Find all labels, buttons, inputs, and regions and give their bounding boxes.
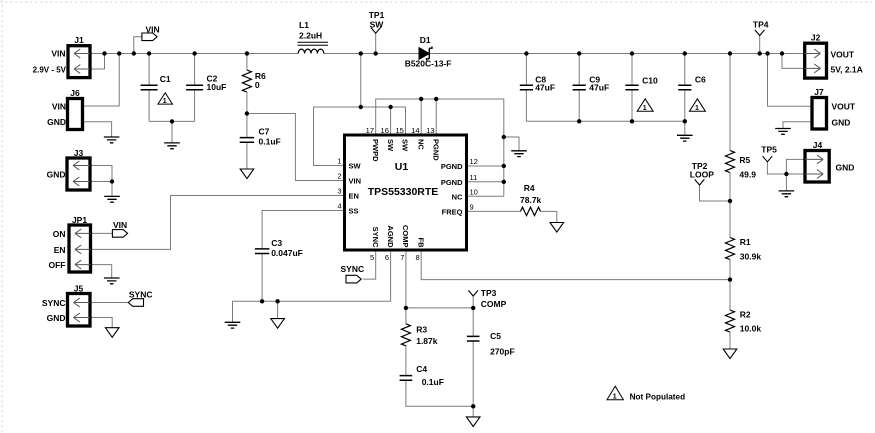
wire R1 to R2 bbox=[729, 260, 731, 311]
net flag VIN (top) bbox=[142, 33, 157, 41]
junction TP2/R5 bbox=[728, 199, 732, 203]
resistor R3 bbox=[401, 324, 410, 346]
svg-text:SW: SW bbox=[386, 139, 395, 152]
connector J3 bbox=[67, 158, 90, 190]
wire R3 to C4 bbox=[405, 346, 407, 376]
wire U1 pin16 stub bbox=[390, 107, 392, 135]
svg-text:VOUT: VOUT bbox=[831, 49, 855, 59]
ground (J3) bbox=[104, 196, 120, 202]
svg-text:47uF: 47uF bbox=[535, 82, 555, 92]
junction AGND bus bbox=[260, 299, 264, 303]
wire U1 pin12 bbox=[467, 165, 504, 167]
ground (AGND triangle) bbox=[271, 319, 285, 329]
junction R6/C7 bbox=[245, 111, 249, 115]
test point TP3 bbox=[468, 290, 478, 296]
ground (J6) bbox=[104, 137, 120, 143]
svg-text:EN: EN bbox=[54, 245, 66, 255]
wire J3 pin2 to ground bbox=[90, 182, 112, 197]
wire J3 pin1 bbox=[90, 166, 112, 182]
wire JP1 pin1 to VIN flag bbox=[91, 232, 113, 234]
svg-text:J3: J3 bbox=[74, 148, 84, 158]
wire VOUT rail (D1 to J2) bbox=[430, 53, 805, 55]
resistor R6 bbox=[242, 70, 251, 92]
capacitor C4 bbox=[400, 376, 413, 381]
svg-text:2: 2 bbox=[337, 172, 341, 181]
wire SW horizontal bbox=[314, 106, 406, 108]
svg-text:1: 1 bbox=[613, 394, 617, 401]
wire R6/C7 junction to U1 VIN pin2 bbox=[247, 114, 345, 181]
svg-text:Not Populated: Not Populated bbox=[630, 392, 686, 401]
junction J4 pins bbox=[784, 172, 788, 176]
svg-text:AGND: AGND bbox=[386, 225, 395, 248]
svg-text:SW: SW bbox=[370, 19, 385, 29]
junction COMP node bbox=[404, 306, 408, 310]
junction J3 pins bbox=[110, 179, 114, 183]
wire U1 pin9 FREQ to R4 bbox=[467, 210, 521, 212]
connector J7 bbox=[812, 98, 827, 130]
svg-text:VIN: VIN bbox=[146, 25, 160, 35]
svg-text:270pF: 270pF bbox=[490, 346, 515, 356]
wire J5 pin2 to ground bbox=[90, 318, 112, 328]
svg-text:30.9k: 30.9k bbox=[740, 251, 762, 261]
resistor R1 bbox=[726, 238, 735, 260]
connector J5 bbox=[68, 294, 91, 327]
svg-text:8: 8 bbox=[416, 253, 420, 262]
inductor L1 bbox=[298, 49, 324, 53]
svg-text:EN: EN bbox=[349, 192, 359, 201]
test point TP1 bbox=[371, 28, 381, 34]
wire output bus ground stem bbox=[684, 121, 686, 135]
wire TP3 stem bbox=[472, 296, 474, 308]
wire U1 pin8 FB net bbox=[421, 250, 730, 280]
svg-text:TP3: TP3 bbox=[481, 288, 497, 298]
svg-text:R2: R2 bbox=[740, 310, 751, 320]
capacitor C6 bbox=[678, 85, 691, 90]
wire R6 leads bbox=[246, 54, 248, 114]
connector J1 bbox=[68, 46, 90, 78]
svg-text:3: 3 bbox=[337, 187, 341, 196]
wire C4 bottom to C5 bottom bbox=[406, 380, 473, 406]
ground (C1 C2) bbox=[164, 143, 180, 149]
svg-text:SYNC: SYNC bbox=[341, 264, 365, 274]
ground (C7) bbox=[240, 169, 254, 179]
wire U1 pin15 stub bbox=[405, 107, 407, 135]
svg-text:J7: J7 bbox=[814, 87, 824, 97]
capacitor C10 bbox=[625, 85, 638, 90]
svg-text:NC: NC bbox=[416, 139, 425, 150]
svg-text:C7: C7 bbox=[259, 126, 270, 136]
svg-text:FB: FB bbox=[416, 238, 425, 249]
svg-text:1.87k: 1.87k bbox=[416, 336, 438, 346]
wire C8 leads bbox=[525, 54, 527, 122]
wire C1C2 ground stem bbox=[171, 121, 173, 142]
wire J2 pin2 bbox=[782, 54, 805, 69]
svg-text:GND: GND bbox=[47, 117, 66, 127]
wire TP5 stem bbox=[767, 162, 786, 174]
wire R5 to R1 bbox=[729, 173, 731, 238]
wire VIN rail bbox=[90, 53, 298, 55]
test point TP2 bbox=[695, 179, 705, 185]
svg-text:PGND: PGND bbox=[441, 162, 463, 171]
junction C1C2 bus bbox=[170, 119, 174, 123]
capacitor C9 bbox=[573, 85, 586, 90]
svg-text:J6: J6 bbox=[70, 88, 80, 98]
wire R5 top lead bbox=[729, 54, 731, 151]
ground (J5) bbox=[105, 328, 119, 338]
svg-text:B520C-13-F: B520C-13-F bbox=[405, 59, 452, 69]
svg-text:VOUT: VOUT bbox=[832, 102, 856, 112]
wire PGND to ground bbox=[504, 137, 519, 151]
svg-text:PWPD: PWPD bbox=[371, 139, 380, 162]
svg-text:SW: SW bbox=[349, 162, 362, 171]
svg-text:0.1uF: 0.1uF bbox=[259, 136, 281, 146]
svg-text:TPS55330RTE: TPS55330RTE bbox=[368, 186, 439, 198]
wire VIN flag leader bbox=[134, 37, 142, 54]
wire U1 pin7 COMP down bbox=[405, 250, 407, 308]
wire C1 leads bbox=[148, 54, 150, 122]
wire C10 leads bbox=[631, 54, 633, 122]
net flag SYNC (J5) bbox=[128, 299, 143, 307]
wire JP1 pin2 EN to U1 pin3 bbox=[91, 196, 345, 250]
svg-text:R3: R3 bbox=[416, 324, 427, 334]
note Not Populated bbox=[607, 386, 623, 400]
ground (R2) bbox=[723, 349, 737, 359]
svg-text:C5: C5 bbox=[490, 331, 501, 341]
svg-text:GND: GND bbox=[836, 163, 855, 173]
svg-text:10.0k: 10.0k bbox=[740, 324, 762, 334]
svg-text:10uF: 10uF bbox=[207, 82, 227, 92]
svg-text:J1: J1 bbox=[74, 35, 84, 45]
svg-text:C6: C6 bbox=[695, 74, 706, 84]
capacitor C3 bbox=[255, 249, 269, 254]
junction PWPD line bbox=[419, 97, 423, 101]
wire J5 pin1 to SYNC flag bbox=[90, 302, 128, 304]
wire COMP net ground stem bbox=[472, 406, 474, 417]
wire J7 pin1 bbox=[768, 54, 813, 107]
svg-text:10: 10 bbox=[470, 188, 478, 197]
svg-text:9: 9 bbox=[470, 203, 474, 212]
svg-text:ON: ON bbox=[53, 229, 66, 239]
svg-text:SYNC: SYNC bbox=[42, 298, 66, 308]
svg-text:OFF: OFF bbox=[49, 260, 66, 270]
wire U1 pin10 bbox=[467, 195, 504, 197]
svg-text:C10: C10 bbox=[642, 75, 658, 85]
ground (COMP net) bbox=[466, 417, 480, 427]
svg-text:D1: D1 bbox=[420, 35, 431, 45]
wire C1-C2 bottom bus bbox=[149, 120, 195, 122]
wire C7 leads bbox=[246, 114, 248, 170]
net flag SYNC (U1 pin5) bbox=[346, 275, 361, 283]
wire J4 pin2 bbox=[786, 173, 805, 175]
svg-text:5V, 2.1A: 5V, 2.1A bbox=[831, 65, 863, 75]
ground (J7) bbox=[775, 129, 791, 135]
ground (R4) bbox=[550, 223, 564, 233]
svg-text:C1: C1 bbox=[160, 74, 171, 84]
net flag VIN (JP1) bbox=[112, 230, 127, 238]
svg-text:2.2uH: 2.2uH bbox=[299, 31, 322, 41]
diode D1 bbox=[419, 48, 429, 60]
svg-text:14: 14 bbox=[411, 126, 419, 135]
svg-text:1: 1 bbox=[695, 105, 699, 112]
not-populated mark C10 bbox=[637, 99, 653, 112]
wire C6 leads bbox=[684, 54, 686, 122]
connector J2 bbox=[805, 43, 827, 78]
wire JP1 pin3 to ground bbox=[91, 265, 112, 278]
capacitor C8 bbox=[520, 85, 533, 90]
svg-text:1: 1 bbox=[643, 105, 647, 112]
not-populated mark C1 bbox=[158, 93, 173, 104]
svg-text:7: 7 bbox=[400, 253, 404, 262]
svg-text:PGND: PGND bbox=[431, 139, 440, 161]
ground (J4) bbox=[779, 191, 795, 197]
junction dots on main rail bbox=[102, 51, 106, 55]
junction COMP bottom bbox=[471, 404, 475, 408]
wire R4 to ground bbox=[541, 211, 557, 222]
connector JP1 bbox=[69, 225, 91, 272]
ground (AGND) bbox=[225, 322, 241, 328]
wire SW node down bbox=[360, 54, 362, 108]
svg-text:COMP: COMP bbox=[481, 299, 507, 309]
resistor R2 bbox=[726, 310, 735, 332]
wire U1 pin17 PWPD line bbox=[376, 99, 504, 196]
svg-text:TP5: TP5 bbox=[761, 145, 777, 155]
ground (output caps) bbox=[677, 135, 693, 141]
wire R2 to ground bbox=[729, 332, 731, 349]
svg-text:0: 0 bbox=[255, 80, 260, 90]
svg-text:VIN: VIN bbox=[52, 101, 66, 111]
svg-text:C3: C3 bbox=[271, 238, 282, 248]
svg-text:LOOP: LOOP bbox=[690, 170, 714, 180]
capacitor C5 bbox=[467, 336, 480, 341]
svg-text:VIN: VIN bbox=[113, 220, 127, 230]
svg-text:17: 17 bbox=[366, 126, 374, 135]
wire TP1 stem bbox=[375, 33, 377, 53]
wire U1 pin11 bbox=[467, 181, 504, 183]
svg-text:15: 15 bbox=[395, 126, 403, 135]
wire C5 leads bbox=[472, 308, 474, 406]
svg-text:1: 1 bbox=[163, 98, 167, 105]
svg-text:J4: J4 bbox=[813, 140, 823, 150]
resistor R5 bbox=[726, 151, 735, 173]
svg-text:VIN: VIN bbox=[51, 49, 65, 59]
svg-text:47uF: 47uF bbox=[589, 82, 609, 92]
svg-text:FREQ: FREQ bbox=[442, 207, 463, 216]
svg-text:5: 5 bbox=[370, 253, 374, 262]
junction FB/R1/R2 bbox=[728, 277, 732, 281]
ground (JP1) bbox=[104, 278, 120, 284]
junction SW line bbox=[359, 105, 363, 109]
wire TP2 stem bbox=[700, 185, 731, 201]
wire C9 leads bbox=[578, 54, 580, 122]
op-amp U1 TPS55330RTE body bbox=[345, 135, 467, 250]
wire SW to U1 pin1 bbox=[314, 107, 345, 166]
svg-text:GND: GND bbox=[47, 170, 66, 180]
wire J6 pin1 to rail bbox=[83, 54, 120, 107]
svg-text:0.1uF: 0.1uF bbox=[422, 377, 444, 387]
svg-text:12: 12 bbox=[470, 157, 478, 166]
wire U1 pin5 to SYNC flag bbox=[363, 250, 376, 279]
svg-text:COMP: COMP bbox=[401, 225, 410, 248]
svg-text:16: 16 bbox=[381, 126, 389, 135]
svg-text:NC: NC bbox=[452, 192, 463, 201]
svg-text:GND: GND bbox=[832, 117, 851, 127]
svg-text:SYNC: SYNC bbox=[129, 290, 153, 300]
svg-text:J2: J2 bbox=[811, 33, 821, 43]
svg-text:11: 11 bbox=[470, 173, 478, 182]
svg-text:SYNC: SYNC bbox=[371, 227, 380, 248]
wire U1 pin6 AGND bus bbox=[233, 250, 391, 322]
svg-text:L1: L1 bbox=[299, 20, 309, 30]
wire AGND triangle stem bbox=[277, 301, 279, 318]
not-populated mark C6 bbox=[689, 99, 705, 112]
wire output cap bus bbox=[526, 120, 684, 122]
capacitor C2 bbox=[186, 85, 203, 90]
wire SW rail (L1 to D1) bbox=[324, 53, 419, 55]
wire U1 pin13 stub bbox=[435, 99, 437, 135]
wire TP4 stem bbox=[759, 36, 761, 54]
test point TP5 bbox=[763, 156, 773, 162]
svg-text:1: 1 bbox=[337, 157, 341, 166]
svg-text:C4: C4 bbox=[416, 364, 427, 374]
svg-text:PGND: PGND bbox=[441, 178, 463, 187]
capacitor C7 bbox=[240, 138, 254, 143]
svg-text:SW: SW bbox=[401, 139, 410, 152]
wire R3 top lead bbox=[405, 308, 407, 324]
capacitor C1 bbox=[141, 85, 158, 90]
test point TP4 bbox=[755, 30, 765, 36]
connector J6 bbox=[68, 99, 83, 130]
svg-text:4: 4 bbox=[337, 202, 341, 211]
svg-text:R5: R5 bbox=[739, 155, 750, 165]
svg-text:U1: U1 bbox=[395, 161, 409, 173]
wire U1 pin4 SS to C3 bbox=[262, 211, 344, 302]
svg-text:SS: SS bbox=[349, 207, 359, 216]
wire J6 pin2 to ground bbox=[83, 122, 112, 137]
svg-text:0.047uF: 0.047uF bbox=[271, 248, 303, 258]
svg-text:2.9V - 5V: 2.9V - 5V bbox=[33, 65, 67, 74]
svg-text:R1: R1 bbox=[740, 237, 751, 247]
svg-text:TP4: TP4 bbox=[753, 20, 769, 30]
wire J4 ground stem bbox=[785, 174, 787, 191]
junction PGND column bbox=[502, 135, 506, 139]
svg-text:GND: GND bbox=[47, 313, 66, 323]
svg-text:49.9: 49.9 bbox=[739, 169, 756, 179]
svg-text:J5: J5 bbox=[74, 284, 84, 294]
wire J1 pin2 to rail bbox=[90, 54, 105, 70]
wire J7 pin2 to ground bbox=[783, 122, 812, 129]
wire COMP horizontal bbox=[406, 307, 473, 309]
ground (PGND) bbox=[511, 151, 527, 157]
wire C2 leads bbox=[194, 54, 196, 122]
svg-text:R4: R4 bbox=[524, 183, 535, 193]
svg-text:13: 13 bbox=[426, 126, 434, 135]
wire U1 pin14 stub bbox=[420, 99, 422, 135]
wire J4 pin1 bbox=[786, 159, 805, 174]
svg-text:VIN: VIN bbox=[349, 177, 362, 186]
resistor R4 bbox=[521, 207, 541, 215]
connector J4 bbox=[805, 151, 829, 183]
svg-text:78.7k: 78.7k bbox=[520, 195, 542, 205]
svg-text:6: 6 bbox=[385, 253, 389, 262]
svg-text:JP1: JP1 bbox=[72, 215, 87, 225]
junction output bus bbox=[577, 119, 581, 123]
